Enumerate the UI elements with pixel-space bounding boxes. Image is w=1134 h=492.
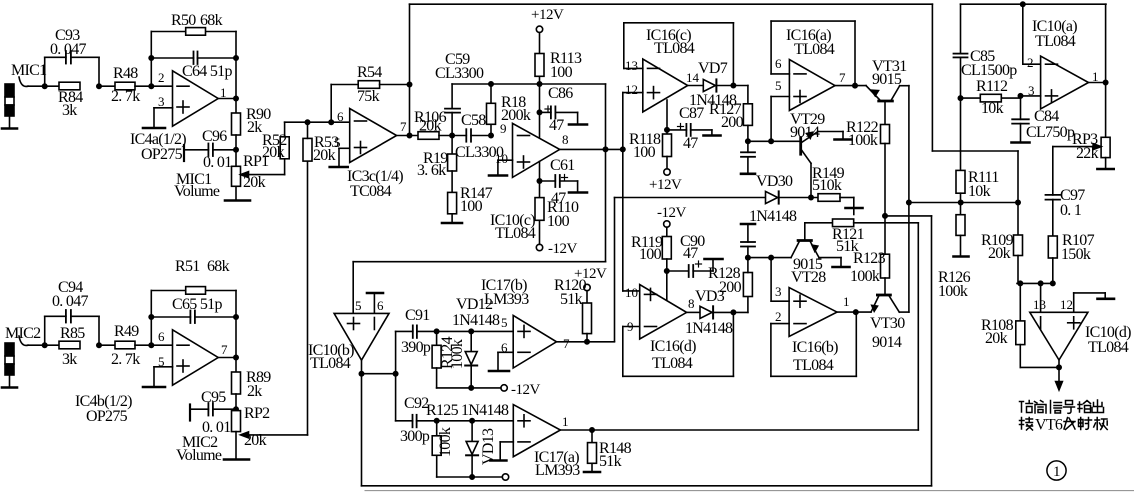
svg-text:LM393: LM393: [484, 291, 529, 308]
capacitor C97: [1052, 147, 1054, 195]
collector riser x909: [908, 86, 910, 312]
resistor R147: [451, 171, 453, 192]
svg-text:9: 9: [500, 121, 507, 136]
IC10a feedback rail: [961, 3, 1107, 5]
VD7 node to R127: [731, 83, 735, 87]
IC10d output and R108 feedback row: [1058, 360, 1060, 367]
svg-text:1: 1: [843, 294, 850, 309]
svg-text:20k: 20k: [244, 432, 267, 449]
svg-text:100: 100: [460, 198, 483, 215]
cap above R128 from ground: [741, 223, 755, 226]
IC10b pin6 ground: [373, 294, 375, 313]
capacitor C87 polarized: [665, 128, 669, 132]
svg-text:10: 10: [625, 285, 638, 300]
svg-text:2k: 2k: [247, 383, 262, 400]
svg-text:+12V: +12V: [531, 7, 564, 23]
resistor R126: [956, 215, 965, 236]
resistor R108: [1019, 283, 1021, 321]
resistor R54 feedback: [331, 84, 358, 86]
diode VD30 row: [615, 197, 766, 199]
svg-text:20k: 20k: [419, 118, 442, 135]
IC10c output row: [560, 148, 623, 150]
svg-text:8: 8: [688, 296, 695, 311]
svg-text:8: 8: [562, 132, 569, 147]
svg-text:6: 6: [158, 329, 165, 344]
junction feedback to pin2: [149, 84, 153, 88]
svg-text:IC16(b): IC16(b): [792, 339, 838, 356]
svg-text:2k: 2k: [247, 119, 262, 136]
op-amp IC16d: [640, 285, 687, 340]
op-amp IC16a: [789, 60, 835, 111]
resistor R109: [1014, 235, 1023, 256]
resistor R127: [743, 104, 752, 126]
capacitor C61 polarized: [539, 162, 541, 198]
svg-text:20k: 20k: [985, 330, 1008, 347]
output row to C91/C92 column: [362, 373, 396, 375]
svg-text:5: 5: [501, 315, 508, 330]
svg-text:20k: 20k: [313, 147, 336, 164]
diode VD12: [469, 329, 473, 333]
svg-text:47: 47: [683, 245, 698, 262]
svg-text:TL084: TL084: [793, 357, 834, 374]
resistor R112: [958, 96, 962, 100]
power stub into IC10c: [539, 112, 541, 137]
riser x918 to IC17a output: [917, 223, 919, 430]
IC16d feedback box: [623, 326, 640, 328]
+12V terminal IC16c: [666, 157, 668, 169]
svg-text:TL084: TL084: [1088, 339, 1129, 356]
svg-text:5: 5: [775, 78, 782, 93]
output wire pin1: [218, 98, 236, 100]
row 141 to VT29 base: [748, 140, 800, 142]
pin6 wire: [771, 73, 789, 75]
svg-text:MIC2: MIC2: [5, 325, 41, 342]
capacitor C94 plates: [65, 310, 67, 323]
resistor R52: [284, 159, 286, 175]
cap to ground below R127: [747, 141, 749, 152]
row 151: [932, 150, 1018, 152]
resistor R90: [235, 99, 237, 114]
svg-text:R112: R112: [976, 78, 1008, 95]
capacitor C93 plates: [65, 51, 67, 64]
resistor R124: [434, 329, 438, 333]
row262 to IC10b pin5: [353, 261, 605, 263]
svg-text:1N4148: 1N4148: [452, 312, 500, 329]
svg-text:C64 51p: C64 51p: [182, 63, 232, 80]
IC17b output row: [557, 341, 615, 343]
svg-text:CL3300: CL3300: [435, 65, 484, 82]
row 257.6 to VT28: [748, 257, 791, 259]
MIC2 jack hook: [19, 336, 28, 345]
svg-text:9014: 9014: [790, 124, 820, 141]
node A2 dot: [43, 343, 47, 347]
op-amp IC10d (down): [1030, 312, 1088, 360]
transistor VT30: [877, 294, 890, 297]
svg-text:390p: 390p: [401, 339, 431, 356]
riser x614 from VD30 row to IC17b output: [614, 198, 616, 342]
svg-text:-12V: -12V: [548, 241, 577, 257]
pin10 wire and ground: [498, 159, 513, 161]
svg-text:20k: 20k: [243, 174, 266, 191]
svg-text:1: 1: [1053, 464, 1061, 480]
R52 top to mix row: [284, 122, 286, 137]
riser pin5 IC16a: [770, 97, 772, 142]
pin2 riser IC10a: [1022, 4, 1024, 64]
resistor R107: [1048, 236, 1057, 258]
pin3 wire and ground: [154, 107, 173, 109]
node B dot: [97, 84, 101, 88]
pin- bracket ground IC17a: [500, 441, 513, 443]
svg-text:3k: 3k: [62, 102, 77, 119]
node R106/C58/R19/C59: [439, 135, 466, 137]
svg-text:Volume: Volume: [176, 447, 222, 464]
feedback loop R50: [150, 32, 152, 87]
VT29 collector junction: [809, 195, 813, 199]
svg-text:9015: 9015: [872, 71, 902, 88]
R111 column: [960, 98, 962, 170]
svg-text:150k: 150k: [1061, 246, 1091, 263]
svg-text:1N4148: 1N4148: [461, 402, 509, 419]
svg-text:10k: 10k: [968, 183, 991, 200]
IC10a output row: [1089, 82, 1106, 84]
potentiometer RP2: [232, 411, 241, 432]
potentiometer RP3: [1105, 83, 1107, 138]
svg-text:Volume: Volume: [174, 183, 220, 200]
capacitor C65 plates: [189, 311, 191, 324]
svg-text:R50: R50: [171, 12, 196, 29]
capacitor C59: [451, 113, 453, 136]
svg-text:0. 01: 0. 01: [203, 154, 232, 171]
output wire pin7: [218, 357, 236, 359]
svg-text:R125: R125: [426, 402, 459, 419]
svg-text:VD30: VD30: [756, 173, 793, 190]
capacitor C64 branch: [149, 56, 153, 60]
potentiometer RP1: [232, 166, 241, 186]
svg-text:RP2: RP2: [244, 405, 270, 422]
pin6 bracket ground: [498, 351, 513, 353]
resistor R49: [115, 341, 135, 349]
svg-text:2. 7k: 2. 7k: [111, 351, 140, 368]
pin13 riser: [1040, 283, 1042, 312]
svg-text:R51: R51: [175, 258, 200, 275]
svg-text:VT6: VT6: [1035, 417, 1063, 434]
resistor R122: [881, 125, 890, 144]
resistor R50: [186, 28, 206, 36]
svg-text:R54: R54: [357, 64, 382, 81]
pin13 wire: [624, 67, 643, 69]
power stub into IC16c: [666, 100, 668, 130]
capacitor C64 plates: [193, 52, 195, 65]
svg-text:68k: 68k: [207, 258, 230, 275]
svg-text:6: 6: [377, 298, 384, 313]
svg-text:TL084: TL084: [1035, 33, 1076, 50]
resistor R53: [303, 138, 312, 161]
svg-text:12: 12: [1060, 297, 1073, 312]
resistor R110: [535, 198, 544, 221]
wire mic2 to node: [28, 344, 59, 346]
wire mic1 to node: [28, 85, 59, 87]
riser output to top rail: [407, 82, 411, 86]
svg-text:5: 5: [355, 298, 362, 313]
op-amp IC3c: [350, 109, 397, 163]
svg-text:C61: C61: [550, 157, 575, 174]
svg-text:100k: 100k: [437, 427, 454, 457]
IC16b feedback box: [771, 323, 789, 325]
svg-text:VD7: VD7: [698, 60, 728, 77]
svg-text:510k: 510k: [812, 177, 842, 194]
pin12 riser and ground: [1073, 293, 1075, 312]
pin5 wire and ground: [339, 147, 350, 149]
svg-text:68k: 68k: [200, 12, 223, 29]
capacitor C85: [954, 53, 968, 55]
row -12V IC17a: [437, 476, 503, 478]
wire R49 to pin6: [135, 344, 173, 346]
svg-text:OP275: OP275: [141, 146, 183, 163]
node R89/C95/RP2: [235, 394, 237, 411]
Chinese output label line2: [1020, 417, 1108, 434]
capacitor C93 branch risers: [44, 57, 46, 86]
svg-text:3: 3: [158, 94, 165, 109]
svg-text:1: 1: [562, 414, 569, 429]
svg-text:-12V: -12V: [511, 382, 540, 398]
pin3 wire: [771, 300, 789, 302]
-12V terminal: [539, 220, 541, 244]
svg-text:13: 13: [1033, 297, 1046, 312]
svg-text:TL084: TL084: [654, 40, 695, 57]
svg-text:LM393: LM393: [535, 462, 580, 479]
svg-text:100k: 100k: [848, 132, 878, 149]
svg-text:100k: 100k: [938, 283, 968, 300]
IC17a output row: [560, 429, 918, 431]
transistor VT29: [799, 138, 802, 155]
IC16a feedback box: [770, 21, 772, 74]
svg-text:+12V: +12V: [649, 177, 682, 193]
resistor R48: [115, 82, 135, 90]
svg-text:10k: 10k: [981, 100, 1004, 117]
capacitor C95: [213, 408, 236, 410]
svg-text:6: 6: [775, 56, 782, 71]
svg-text:CL750p: CL750p: [1026, 124, 1075, 141]
op-amp IC10c: [513, 123, 560, 177]
resistor R121: [805, 222, 833, 224]
capacitor C90 polarized: [667, 270, 689, 272]
circled number 1: [1047, 461, 1066, 480]
svg-text:C91: C91: [405, 307, 430, 324]
resistor R119: [666, 227, 668, 236]
MIC1 microphone symbol: [2, 84, 17, 129]
pin12 wire and riser: [623, 92, 643, 94]
svg-text:-12V: -12V: [657, 205, 686, 221]
svg-text:R49: R49: [114, 323, 139, 340]
svg-text:100k: 100k: [449, 339, 466, 369]
svg-text:VT28: VT28: [791, 269, 826, 286]
svg-text:VT30: VT30: [870, 315, 905, 332]
svg-text:200: 200: [721, 114, 744, 131]
top rail: [410, 3, 933, 5]
row -12V IC17b: [437, 387, 501, 389]
svg-text:C96: C96: [202, 128, 227, 145]
svg-text:100: 100: [547, 213, 570, 230]
resistor R148: [591, 430, 593, 443]
svg-text:0. 1: 0. 1: [1060, 202, 1082, 219]
svg-text:R48: R48: [113, 65, 138, 82]
bottom rail: [362, 485, 932, 487]
resistor R106: [418, 132, 439, 140]
resistor R118: [666, 130, 668, 134]
power stub into IC16d: [666, 271, 668, 301]
svg-text:0. 047: 0. 047: [50, 41, 87, 58]
svg-text:7: 7: [563, 336, 570, 351]
pin5 wire: [771, 96, 789, 98]
capacitor C92: [396, 420, 413, 422]
R54 riser junction: [329, 120, 333, 124]
op-amp IC16b: [789, 288, 837, 337]
svg-text:6: 6: [337, 109, 344, 124]
IC16c feedback box: [623, 23, 625, 69]
svg-text:TL084: TL084: [652, 355, 693, 372]
row 283.4: [1017, 282, 1054, 284]
svg-text:12: 12: [625, 82, 638, 97]
MIC2 microphone symbol: [2, 343, 17, 388]
op-amp IC10b (down): [334, 313, 389, 360]
resistor R128: [747, 297, 749, 313]
svg-text:C86: C86: [548, 85, 573, 102]
op-amp IC4b: [173, 330, 219, 385]
IC16a output wire: [835, 85, 866, 87]
svg-text:R123: R123: [853, 250, 886, 267]
svg-text:IC16(d): IC16(d): [650, 338, 696, 355]
svg-text:C87: C87: [679, 105, 704, 122]
row y84: [452, 83, 605, 85]
op-amp IC4a: [173, 71, 219, 126]
wire R48 to pin2: [135, 85, 173, 87]
svg-text:TL084: TL084: [310, 355, 351, 372]
IC10b pin5 riser: [352, 262, 354, 314]
op-amp IC16c: [643, 59, 688, 112]
RP1 ground: [235, 186, 237, 199]
resistor R125: [435, 419, 439, 423]
svg-text:OP275: OP275: [86, 408, 128, 425]
pin10 wire: [623, 290, 640, 292]
resistor R120: [583, 303, 592, 334]
resistor R123: [884, 216, 886, 254]
top rail right column: [931, 4, 933, 151]
svg-text:MIC1: MIC1: [11, 62, 47, 79]
Chinese output label line1 hand-drawn glyphs: [1020, 400, 1104, 413]
op-amp IC17b: [513, 315, 556, 368]
svg-text:2: 2: [158, 70, 165, 85]
svg-text:0. 047: 0. 047: [52, 293, 89, 310]
svg-text:C65 51p: C65 51p: [172, 296, 222, 313]
resistor R111: [956, 170, 965, 193]
resistor R89: [235, 358, 237, 373]
capacitor C84: [1020, 98, 1022, 119]
svg-text:51k: 51k: [560, 291, 583, 308]
svg-text:100k: 100k: [850, 268, 880, 285]
svg-text:C84: C84: [1034, 108, 1059, 125]
svg-text:100: 100: [550, 64, 573, 81]
resistor R51: [186, 287, 206, 295]
pin3 wire: [1021, 95, 1041, 97]
op-amp IC10a: [1041, 56, 1089, 109]
row 202.5: [909, 202, 961, 204]
node A dot: [43, 84, 47, 88]
capacitor C91: [396, 330, 413, 332]
svg-text:2: 2: [1027, 55, 1034, 70]
capacitor C86 polarized: [537, 110, 541, 114]
svg-text:1N4148: 1N4148: [749, 208, 797, 225]
wire to R49: [99, 344, 115, 346]
R147 ground: [451, 214, 453, 222]
svg-text:7: 7: [839, 70, 846, 85]
svg-text:75k: 75k: [357, 88, 380, 105]
MIC1 jack hook: [19, 77, 28, 86]
IC16b output row: [837, 311, 871, 313]
svg-text:20k: 20k: [988, 245, 1011, 262]
svg-text:22k: 22k: [1076, 145, 1099, 162]
wire node B to R48: [99, 85, 115, 87]
capacitor C94 branch: [44, 316, 46, 345]
resistor R85: [59, 341, 80, 349]
svg-text:10: 10: [495, 151, 508, 166]
svg-text:100: 100: [633, 144, 656, 161]
IC10b output column: [361, 360, 363, 486]
resistor R84: [59, 82, 80, 90]
svg-text:51k: 51k: [599, 453, 622, 470]
node B2 dot: [97, 343, 101, 347]
op-amp IC17a: [513, 405, 560, 457]
diode VD3: [687, 311, 700, 313]
svg-text:7: 7: [221, 342, 228, 357]
svg-text:CL1500p: CL1500p: [961, 62, 1017, 79]
capacitor C58: [465, 129, 467, 142]
svg-text:2. 7k: 2. 7k: [111, 88, 140, 105]
transistor VT31: [879, 100, 893, 103]
svg-text:7: 7: [400, 119, 407, 134]
RP3 ground: [1105, 158, 1107, 168]
svg-text:2: 2: [775, 309, 782, 324]
RP2 wiper riser to R53: [307, 161, 309, 435]
riser pin3 IC16b: [770, 258, 772, 302]
svg-text:9014: 9014: [872, 334, 902, 351]
row 202.5 right: [961, 202, 1018, 204]
svg-text:13: 13: [625, 58, 638, 73]
junction feedback2 to pin6: [149, 343, 153, 347]
diode VD7: [688, 85, 704, 87]
output arrow: [1058, 367, 1060, 383]
diode VD13: [470, 419, 474, 423]
resistor R149: [818, 194, 840, 202]
capacitor C65 branch: [149, 315, 153, 319]
row 215.9 to rail riser: [885, 215, 932, 217]
svg-text:1N4148: 1N4148: [685, 320, 733, 337]
transistor VT28: [798, 239, 811, 242]
svg-text:100: 100: [639, 246, 662, 263]
resistor R18: [489, 82, 493, 86]
faint page rule: [365, 490, 1134, 492]
column from row84 down to row262: [605, 84, 607, 262]
svg-text:TL084: TL084: [495, 225, 536, 242]
svg-text:3k: 3k: [62, 351, 77, 368]
svg-text:3. 6k: 3. 6k: [417, 162, 446, 179]
capacitor C96: [213, 149, 236, 151]
svg-text:20k: 20k: [262, 144, 285, 161]
resistor R19: [451, 136, 453, 155]
svg-text:C58: C58: [461, 112, 486, 129]
svg-text:300p: 300p: [400, 428, 430, 445]
svg-text:47: 47: [683, 135, 698, 152]
svg-text:200: 200: [719, 279, 742, 296]
